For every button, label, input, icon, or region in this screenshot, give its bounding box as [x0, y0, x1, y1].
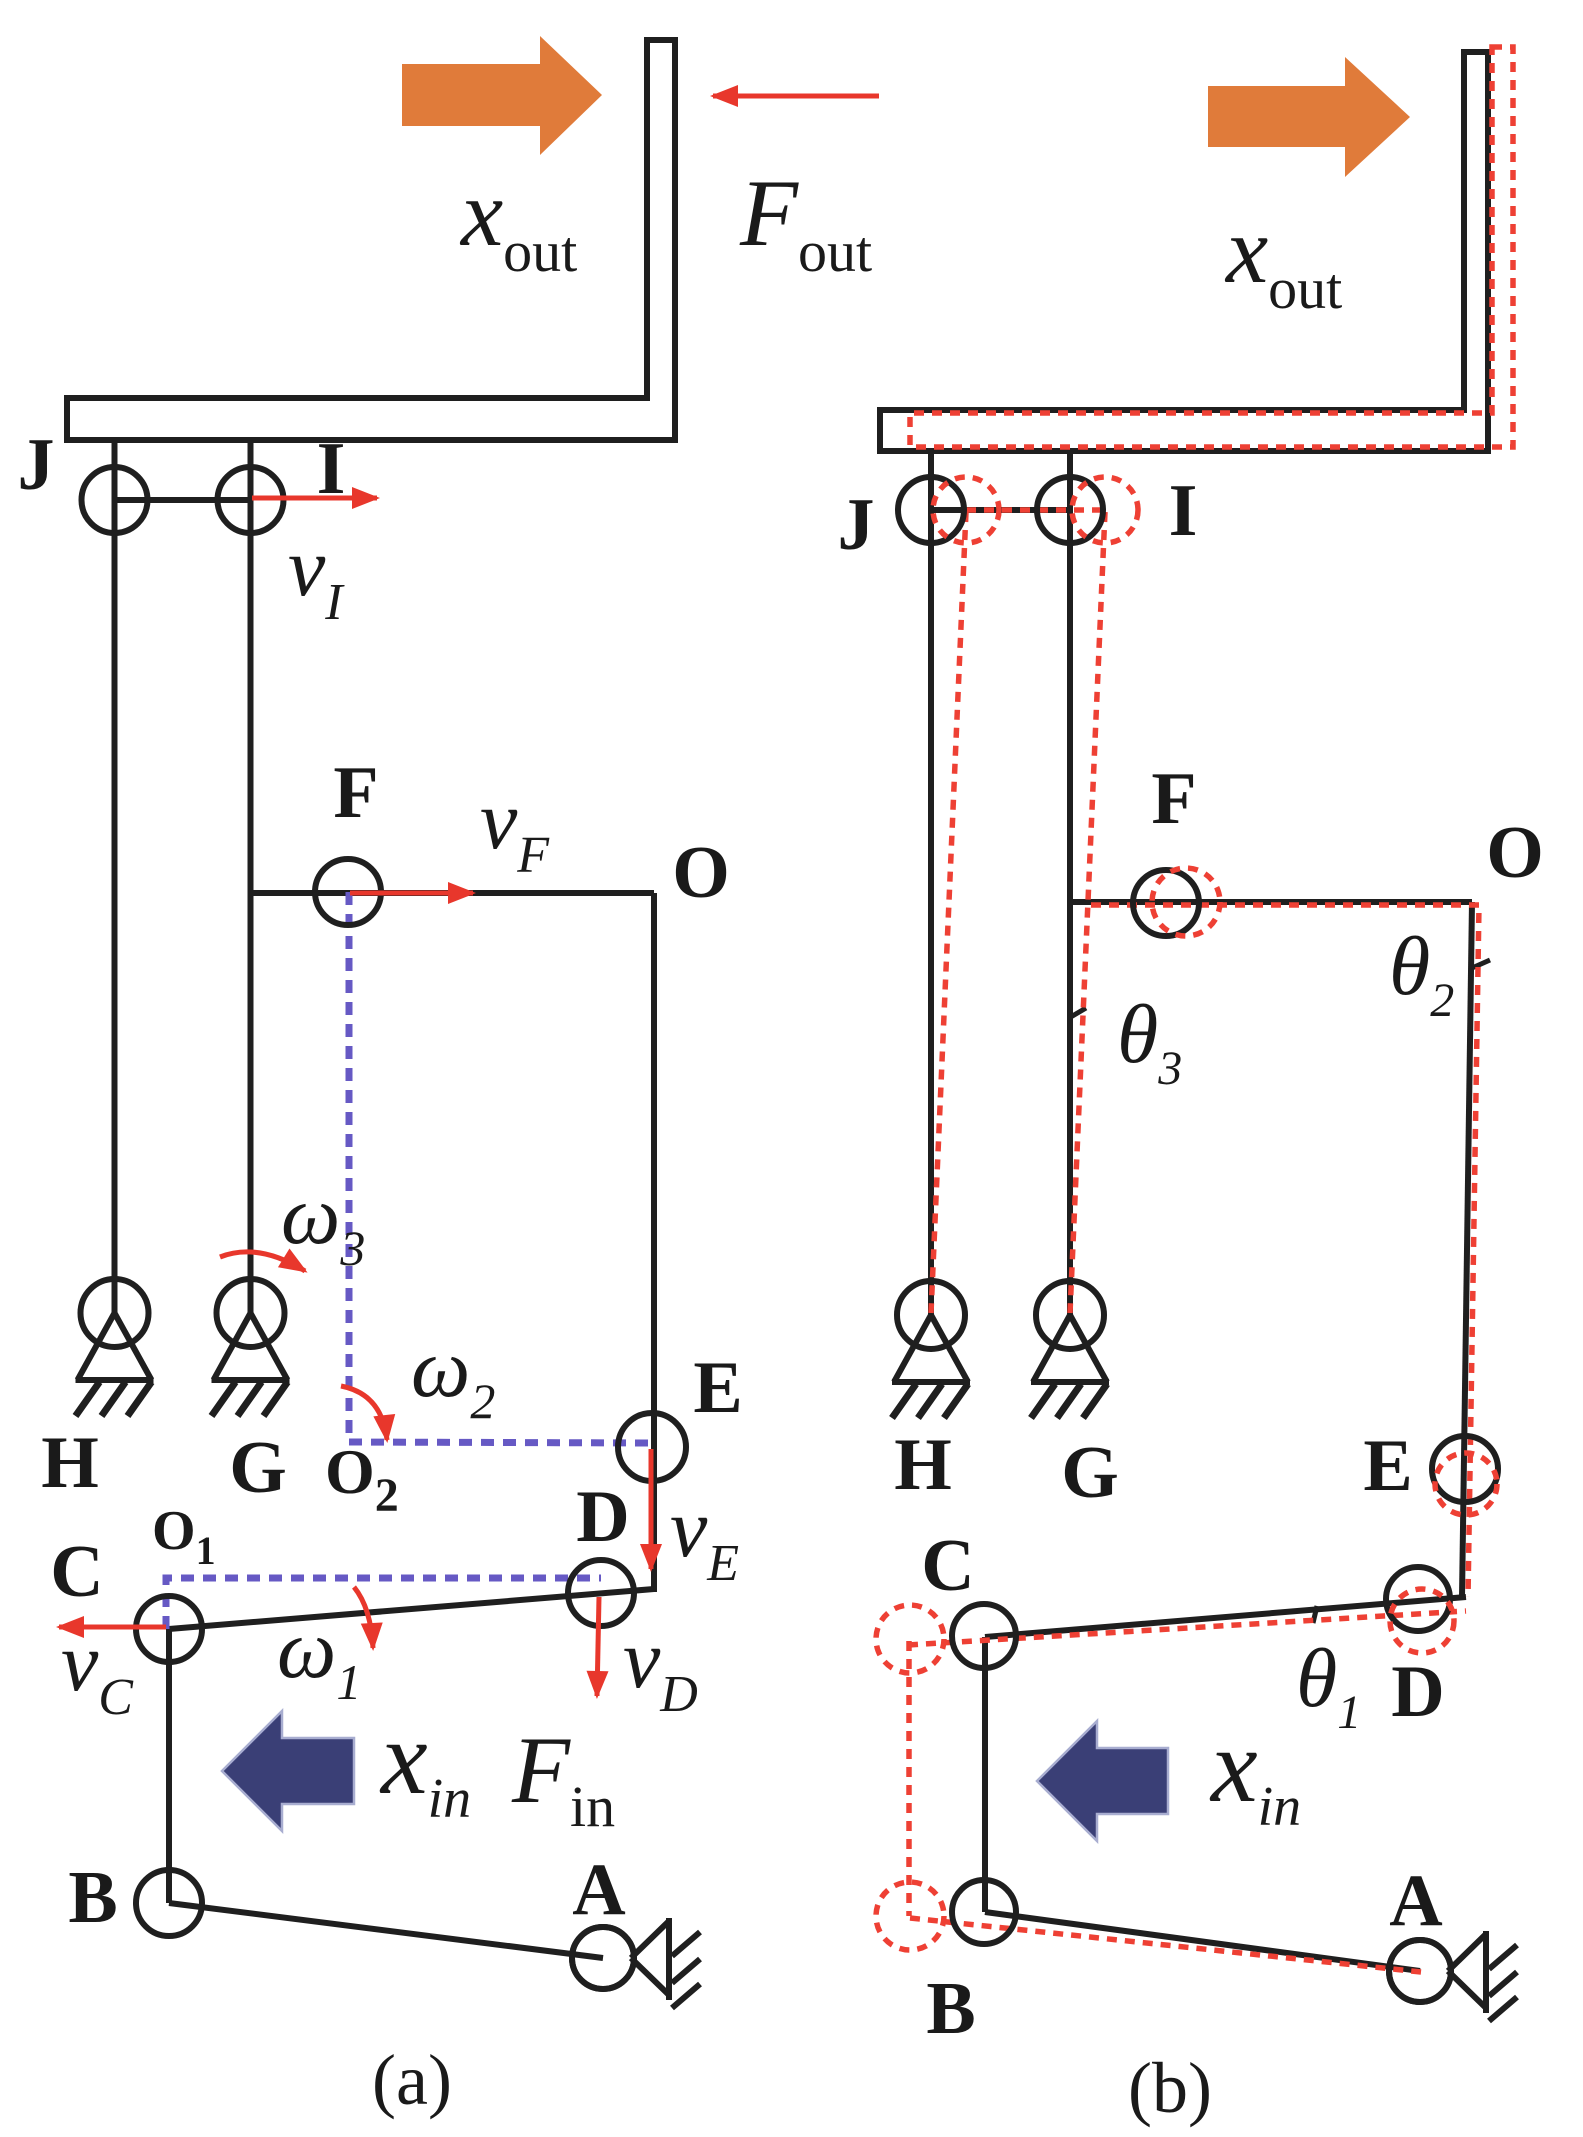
theta1 tick mark: [1313, 1606, 1317, 1623]
svg-text:F: F: [333, 752, 378, 834]
svg-text:θ3: θ3: [1117, 988, 1182, 1095]
svg-text:E: E: [1363, 1425, 1412, 1507]
svg-text:(b): (b): [1128, 2048, 1212, 2128]
joint D (b): [1386, 1567, 1450, 1631]
red arc omega3: [220, 1252, 305, 1271]
svg-text:O: O: [1486, 812, 1544, 894]
orange arrow x_out (a): [402, 36, 602, 155]
joint C (b): [952, 1604, 1016, 1668]
svg-text:H: H: [894, 1424, 952, 1506]
joint F (b): [1133, 870, 1199, 936]
red arc omega1: [354, 1587, 373, 1648]
wire link O-E (b): [1462, 902, 1472, 1597]
svg-text:G: G: [229, 1427, 287, 1509]
svg-text:vD: vD: [623, 1613, 698, 1723]
wire link J-H (b): [928, 451, 934, 1315]
joint C (a): [136, 1596, 202, 1662]
output slider bracket (a): [67, 40, 675, 440]
wire link C-D (a): [169, 1589, 654, 1629]
dashed displaced joint F' (b): [1152, 868, 1220, 936]
svg-text:vF: vF: [480, 774, 550, 884]
dashed link F-O2-E (a): [349, 892, 652, 1443]
wire link B-A (a): [169, 1903, 603, 1958]
svg-text:xin: xin: [379, 1699, 471, 1830]
joint B (a): [136, 1870, 202, 1936]
svg-text:C: C: [921, 1525, 974, 1607]
ground pivot H (b): [892, 1281, 970, 1418]
svg-text:J: J: [838, 484, 875, 566]
dashed displaced link C'-D' (b): [908, 1611, 1466, 1645]
svg-text:ω2: ω2: [411, 1322, 495, 1429]
wire link O-E (a): [651, 893, 657, 1592]
svg-text:C: C: [50, 1531, 103, 1613]
joint F (a): [315, 859, 381, 925]
svg-text:θ1: θ1: [1296, 1632, 1361, 1739]
ground pivot A (a): [572, 1918, 700, 2008]
joint E (b): [1432, 1436, 1498, 1502]
dashed displaced joint J' (b): [933, 477, 999, 543]
svg-text:E: E: [693, 1347, 742, 1429]
ground pivot G (b): [1031, 1281, 1109, 1418]
red arrow v_C: [59, 1625, 166, 1630]
red arrow v_E: [649, 1449, 654, 1569]
svg-text:D: D: [576, 1476, 629, 1558]
svg-text:xout: xout: [459, 160, 577, 284]
ground pivot H (a): [76, 1279, 154, 1416]
svg-text:G: G: [1061, 1432, 1119, 1514]
wire link I-G (a): [248, 440, 254, 1313]
wire link J-H (a): [112, 440, 118, 1313]
svg-text:A: A: [1389, 1860, 1442, 1942]
red arrow v_I: [252, 496, 377, 501]
dashed displaced link J'-I' (b): [966, 507, 1105, 513]
wire link C-D (b): [985, 1597, 1466, 1637]
joint J (b): [898, 477, 964, 543]
navy arrow x_in (a): [222, 1711, 354, 1831]
svg-text:H: H: [41, 1422, 99, 1504]
svg-text:B: B: [926, 1968, 975, 2050]
dashed displaced link F'-O' (b): [1091, 905, 1479, 1597]
red arrow v_D: [597, 1597, 599, 1696]
svg-text:ω3: ω3: [281, 1169, 365, 1276]
svg-text:vE: vE: [670, 1482, 739, 1592]
wire link C-B (b): [982, 1637, 988, 1912]
svg-text:I: I: [317, 428, 346, 510]
joint J (a): [82, 467, 148, 533]
theta2 tick mark: [1472, 960, 1490, 968]
wire link G-F-O (a): [251, 890, 655, 896]
dashed displaced joint E' (b): [1435, 1453, 1497, 1515]
svg-text:xin: xin: [1209, 1707, 1301, 1838]
orange arrow x_out (b): [1208, 57, 1410, 177]
joint A (a): [572, 1927, 634, 1989]
red arc omega2: [341, 1386, 387, 1440]
navy arrow x_in (b): [1037, 1721, 1168, 1841]
dashed displaced joint I' (b): [1072, 477, 1138, 543]
svg-text:O: O: [672, 832, 730, 914]
svg-text:B: B: [68, 1857, 117, 1939]
wire link I-G (b): [1067, 451, 1073, 1315]
joint I (a): [218, 467, 284, 533]
svg-text:vI: vI: [288, 521, 345, 631]
svg-text:ω1: ω1: [277, 1603, 361, 1710]
svg-text:D: D: [1391, 1651, 1444, 1733]
dashed displaced joint B' (b): [876, 1882, 944, 1950]
wire link J-I (a): [115, 497, 251, 503]
svg-text:O1: O1: [152, 1500, 216, 1573]
dashed displaced link C'-B' (b): [906, 1641, 912, 1916]
svg-text:(a): (a): [372, 2040, 452, 2120]
dashed displaced bracket (b): [910, 47, 1513, 447]
svg-text:F: F: [1151, 758, 1196, 840]
dashed displaced joint D' (b): [1390, 1589, 1454, 1653]
output slider bracket (b): [880, 52, 1488, 451]
joint E (a): [618, 1413, 686, 1481]
svg-text:Fin: Fin: [511, 1717, 615, 1839]
svg-text:θ2: θ2: [1389, 920, 1454, 1027]
wire link B-A (b): [985, 1912, 1420, 1971]
wire link G-F-O (b): [1070, 899, 1472, 905]
joint B (b): [952, 1880, 1016, 1944]
joint A (b): [1389, 1940, 1451, 2002]
svg-text:A: A: [572, 1849, 625, 1931]
red arrow v_F: [350, 891, 473, 896]
svg-text:xout: xout: [1224, 197, 1342, 321]
wire link C-B (a): [166, 1629, 172, 1903]
joint D (a): [568, 1560, 634, 1626]
theta3 tick mark: [1069, 1008, 1086, 1018]
svg-text:vC: vC: [61, 1616, 134, 1726]
dashed link C-O1-D (a): [166, 1578, 601, 1629]
svg-text:Fout: Fout: [739, 160, 872, 284]
svg-text:I: I: [1169, 470, 1198, 552]
ground pivot G (a): [212, 1279, 290, 1416]
dashed displaced link B'-A (b): [910, 1918, 1421, 1972]
dashed displaced link G-I' (b): [1070, 512, 1105, 1313]
dashed displaced link H-J' (b): [931, 512, 966, 1313]
dashed displaced joint C' (b): [876, 1605, 944, 1673]
wire link J-I (b): [931, 507, 1070, 513]
joint I (b): [1037, 477, 1103, 543]
ground pivot A (b): [1389, 1931, 1517, 2021]
svg-text:J: J: [18, 424, 55, 506]
svg-text:O2: O2: [325, 1436, 399, 1522]
red arrow F_out: [713, 94, 879, 99]
